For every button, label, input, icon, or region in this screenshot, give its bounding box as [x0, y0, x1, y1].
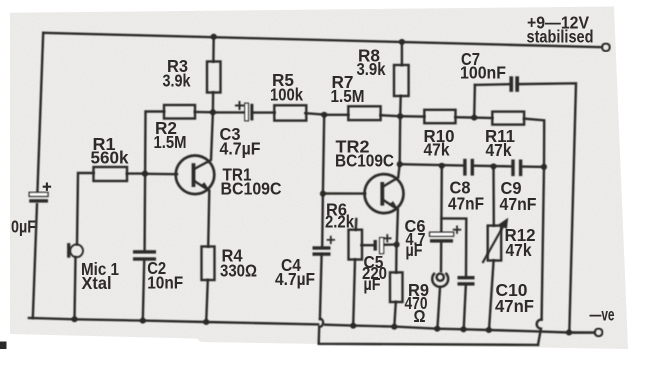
mic 1 symbol: [67, 243, 83, 258]
svg-text:1.5M: 1.5M: [154, 132, 187, 152]
svg-text:330Ω: 330Ω: [220, 261, 257, 281]
svg-text:47k: 47k: [486, 140, 512, 160]
wire C3 to R5: [253, 111, 275, 113]
wire R2 right to R3 junction: [195, 111, 213, 114]
resistor R7: [348, 106, 380, 120]
wire node A to R7: [324, 114, 348, 116]
wire R6 to rail: [353, 260, 355, 326]
capacitor C4: [313, 236, 336, 256]
output jack symbol: [432, 273, 448, 287]
wire C10 to rail: [464, 286, 466, 330]
wire TR2 collector lead: [384, 164, 400, 186]
wire C6 branch down: [440, 166, 443, 233]
svg-text:µF: µF: [364, 274, 381, 294]
wire TR2 collector to R8 junction: [399, 116, 402, 164]
wire C7 right corner down: [519, 83, 576, 332]
wire R2 left corner vertical: [145, 112, 164, 251]
wire R11 right corner down: [524, 119, 544, 167]
svg-text:Ω: Ω: [414, 306, 426, 326]
capacitor C6: [430, 226, 462, 243]
resistor R10: [424, 110, 455, 123]
wire TR1 base: [145, 173, 177, 176]
wire loop below rail: [319, 327, 538, 345]
svg-text:10nF: 10nF: [147, 272, 183, 292]
wire C2 to rail: [143, 261, 144, 321]
wire R8 bottom lead: [399, 96, 402, 116]
wire junction to R10: [400, 115, 424, 118]
capacitor C7 plates: [509, 76, 519, 92]
capacitor C3: [235, 101, 253, 121]
wire R3 bottom lead: [212, 93, 215, 113]
svg-text:1.5M: 1.5M: [331, 86, 365, 106]
resistor R4: [202, 247, 215, 281]
wire TR2 emitter lead: [384, 201, 398, 245]
hop over bottom rail: [319, 318, 323, 327]
svg-text:47nF: 47nF: [495, 296, 534, 316]
wire top rail: [43, 33, 601, 47]
svg-text:BC109C: BC109C: [221, 179, 282, 199]
svg-text:100k: 100k: [270, 85, 303, 105]
wire R8 top lead: [401, 42, 403, 65]
resistor R6: [349, 230, 363, 260]
wire C6 to jack: [440, 243, 443, 272]
wire bottom rail left of hop: [29, 318, 318, 324]
wire R12 branch down: [492, 166, 495, 225]
wire bottom rail right of hop: [325, 325, 594, 333]
svg-text:47nF: 47nF: [448, 194, 484, 214]
transistor TR2: [365, 174, 404, 213]
svg-text:stabilised: stabilised: [527, 27, 594, 47]
bottom-left black mark: [0, 342, 7, 350]
resistor R12: [488, 226, 502, 261]
wire junction to R11: [474, 116, 492, 119]
transistor TR1: [176, 156, 215, 195]
wire R3 top lead: [212, 37, 215, 62]
svg-text:47nF: 47nF: [500, 194, 537, 214]
R12 arrow: [483, 220, 507, 263]
capacitor C1 plus: [43, 183, 51, 191]
capacitor C1 plates: [29, 192, 48, 202]
svg-text:—ve: —ve: [590, 305, 615, 325]
capacitor C2 plates: [133, 250, 156, 260]
wire C5 left lead: [362, 244, 374, 246]
wire R1 right to junction: [127, 172, 146, 174]
svg-text:4.7µF: 4.7µF: [220, 139, 261, 159]
wire TR2 base: [323, 192, 365, 195]
resistor R5: [274, 105, 306, 120]
wire C4 down to hop: [320, 255, 322, 320]
resistor R2: [164, 105, 195, 119]
resistor R8: [394, 65, 409, 96]
wire C5 right lead: [384, 243, 397, 246]
svg-text:100nF: 100nF: [460, 63, 506, 83]
wire R9 to rail: [394, 302, 396, 327]
terminal -ve: [595, 329, 603, 337]
wire junction to C3: [213, 111, 245, 113]
resistor R3: [207, 62, 221, 93]
node A vertical to TR2 base level: [323, 115, 324, 194]
wire R6 top lead: [355, 219, 358, 230]
wire C9 right lead: [522, 165, 544, 168]
svg-text:0µF: 0µF: [11, 217, 36, 237]
wire left border lower: [33, 204, 37, 318]
wire R10 to R11 junction: [456, 116, 475, 119]
wire left border upper: [37, 33, 43, 193]
svg-text:2.2k: 2.2k: [325, 212, 354, 232]
resistor R11: [492, 112, 524, 125]
svg-text:47k: 47k: [506, 240, 532, 260]
svg-text:µF: µF: [406, 240, 423, 260]
wire C9 right down to rail: [542, 167, 544, 320]
capacitor C8 plates: [463, 159, 474, 176]
capacitor C9 plates: [511, 160, 522, 177]
wire C10 staircase branch: [441, 218, 466, 276]
wire mic to rail: [75, 257, 76, 319]
wire R7 to junction: [381, 115, 401, 116]
svg-text:3.9k: 3.9k: [163, 71, 191, 91]
node A vertical down to C4: [321, 194, 324, 247]
wire down into loop: [538, 329, 541, 345]
capacitor C10 plates: [458, 276, 475, 286]
svg-text:560k: 560k: [91, 148, 129, 168]
resistor R1: [94, 167, 128, 181]
wire jack to rail: [437, 288, 440, 329]
svg-text:47k: 47k: [424, 140, 450, 160]
wire TR1 emitter lead: [195, 182, 209, 247]
wire C7 branch up: [473, 85, 476, 118]
wire to C7 left plate: [475, 83, 510, 86]
capacitor C5: [374, 234, 392, 254]
resistor R9: [390, 272, 403, 302]
wire TR1 collector lead: [195, 112, 213, 168]
svg-text:3.9k: 3.9k: [357, 59, 386, 79]
wire R12 to rail: [489, 261, 494, 330]
svg-text:Xtal: Xtal: [82, 273, 112, 293]
wire C8 to C9: [474, 164, 511, 167]
svg-text:4.7µF: 4.7µF: [275, 269, 315, 289]
wire R4 to rail: [206, 280, 208, 322]
wire TR2 emitter to R9: [395, 245, 398, 273]
terminal +V: [602, 43, 610, 51]
svg-text:BC109C: BC109C: [335, 151, 394, 171]
wire R5 to node A: [305, 113, 324, 114]
wire mic branch vertical: [77, 173, 94, 244]
hop of R11/C9 line over bottom rail: [537, 320, 542, 329]
wire collector node to C8: [400, 164, 464, 165]
wire rail to -ve terminal: [569, 331, 594, 334]
